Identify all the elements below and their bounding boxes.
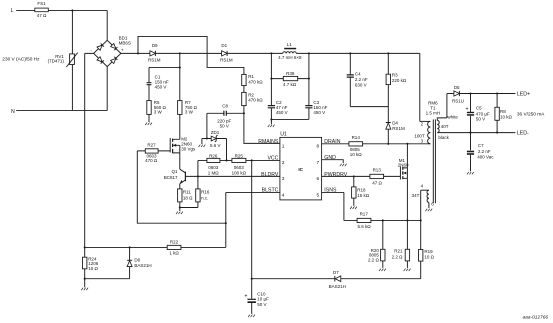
wire C8 left to ZD1 node [206, 113, 208, 139]
svg-text:R26: R26 [209, 154, 218, 159]
capacitor C8 [207, 103, 244, 128]
svg-text:3 W: 3 W [185, 110, 194, 115]
svg-text:aaa-012766: aaa-012766 [523, 314, 549, 320]
diode D9 RS1M [148, 43, 161, 63]
resistor R26 [207, 154, 220, 176]
svg-text:R17: R17 [360, 212, 369, 217]
svg-text:220 kΩ: 220 kΩ [392, 78, 407, 83]
wire R26 left vertical [197, 160, 199, 188]
wire C2 branch [270, 53, 272, 105]
node junction L/RV1 [71, 9, 73, 11]
label RMAINS [258, 139, 279, 145]
node VCC junction [251, 159, 253, 161]
svg-text:10 kΩ: 10 kΩ [350, 152, 363, 157]
transistor M2 2N60 [170, 136, 196, 153]
svg-text:4: 4 [282, 193, 285, 199]
diode D7 BAS21H [329, 270, 346, 289]
ground C7 [467, 172, 474, 175]
svg-text:R2: R2 [248, 92, 254, 97]
svg-text:15 kΩ: 15 kΩ [357, 193, 370, 198]
resistor R27 [137, 143, 170, 163]
resistor R17 [357, 212, 371, 229]
svg-text:5: 5 [317, 193, 320, 199]
svg-text:FS1: FS1 [37, 1, 46, 6]
svg-text:BLSTC: BLSTC [262, 187, 279, 193]
diode D4 RS1M [386, 107, 405, 144]
svg-text:2.2 Ω: 2.2 Ω [392, 254, 404, 259]
svg-text:MB6S: MB6S [119, 41, 131, 46]
capacitor C2 [268, 100, 288, 119]
svg-text:6: 6 [317, 176, 320, 182]
svg-text:36 V/250 mA: 36 V/250 mA [517, 112, 545, 118]
svg-text:470 kΩ: 470 kΩ [248, 98, 263, 103]
svg-text:10 kΩ: 10 kΩ [500, 114, 513, 119]
label output rating [517, 112, 545, 118]
svg-text:1 kΩ: 1 kΩ [169, 251, 179, 256]
transistor Q1 BC817 [164, 169, 186, 184]
wire R7 to M2 drain [173, 114, 180, 139]
svg-text:C4: C4 [355, 71, 361, 76]
svg-text:1: 1 [282, 144, 285, 150]
svg-text:RS1M: RS1M [392, 126, 405, 131]
svg-text:C10: C10 [257, 291, 266, 296]
wire N line [16, 67, 107, 111]
svg-text:50 V: 50 V [476, 117, 485, 122]
svg-text:0603: 0603 [208, 165, 219, 170]
wire main bus top [121, 53, 420, 121]
svg-text:R8: R8 [500, 109, 506, 114]
svg-text:L: L [11, 8, 14, 14]
capacitor C4 [347, 53, 368, 106]
svg-text:BC817: BC817 [164, 175, 178, 180]
node junction C2 top [270, 52, 272, 54]
svg-text:2: 2 [282, 160, 285, 166]
bridge rectifier BD1 MB6S [90, 36, 131, 67]
svg-text:R19: R19 [424, 249, 433, 254]
svg-text:2.2 Ω: 2.2 Ω [368, 257, 380, 262]
svg-text:BAS21H: BAS21H [329, 284, 346, 289]
svg-text:2.2 nF: 2.2 nF [355, 77, 368, 82]
wire bypass over D9 [138, 36, 244, 74]
svg-text:8: 8 [317, 144, 320, 150]
wire R1-R2 [243, 86, 245, 93]
fuse FS1 [35, 1, 49, 18]
svg-text:N: N [11, 109, 15, 115]
svg-text:R21: R21 [394, 249, 403, 254]
svg-text:R38: R38 [286, 71, 295, 76]
svg-text:R1: R1 [248, 74, 254, 79]
svg-text:white: white [447, 115, 458, 120]
svg-text:D6: D6 [134, 258, 140, 263]
resistor R14 [349, 135, 363, 157]
svg-text:400 Vac: 400 Vac [477, 154, 494, 159]
svg-text:R16: R16 [201, 190, 210, 195]
svg-text:C7: C7 [478, 143, 484, 148]
capacitor C1 [147, 75, 169, 101]
label 230V source [2, 56, 40, 62]
svg-text:7: 7 [317, 160, 320, 166]
svg-text:n.c.: n.c. [201, 195, 208, 200]
wire rail B [252, 278, 421, 280]
wire BLDRV line [185, 175, 280, 177]
svg-text:D1: D1 [221, 43, 227, 48]
svg-text:0603: 0603 [234, 165, 245, 170]
svg-text:1.5 mH: 1.5 mH [426, 110, 441, 115]
wire R11/R16 bottoms [179, 202, 198, 211]
wire clamp node [350, 106, 388, 108]
capacitor C5 [465, 94, 489, 133]
wire DRAIN line [322, 143, 431, 145]
node junction bypass left [137, 52, 139, 54]
svg-text:R13: R13 [373, 168, 382, 173]
svg-text:18 Ω: 18 Ω [183, 195, 193, 200]
wire LED+ line [459, 92, 515, 94]
wire VCC row [198, 159, 280, 161]
wire C1/R7 top node [149, 53, 181, 100]
svg-text:47 Ω: 47 Ω [37, 13, 47, 18]
svg-text:GND: GND [324, 155, 336, 161]
resistor R18 [352, 176, 370, 198]
wire M1 source to R21 [406, 178, 408, 249]
ground R20 [379, 261, 386, 271]
wire C3 branch [308, 53, 310, 105]
wire ISNS [322, 192, 358, 220]
label schematic id [523, 314, 549, 320]
capacitor C10 [244, 291, 269, 314]
svg-text:DRAIN: DRAIN [324, 139, 340, 145]
wire PWRDRV line [322, 175, 401, 177]
resistor R21 [392, 249, 410, 261]
svg-text:RS1U: RS1U [452, 98, 464, 103]
node L label [11, 8, 14, 14]
svg-text:630 V: 630 V [355, 83, 367, 88]
svg-text:C8: C8 [222, 103, 228, 108]
wire Q1 emitter to R11 [179, 184, 181, 189]
resistor R13 [370, 168, 384, 186]
svg-text:C5: C5 [476, 105, 482, 110]
svg-text:5.6 V: 5.6 V [210, 143, 221, 148]
svg-text:RS1M: RS1M [220, 58, 233, 63]
resistor R25 [232, 154, 247, 176]
svg-text:RS1M: RS1M [148, 58, 161, 63]
resistor R24 [83, 256, 99, 271]
svg-text:R18: R18 [357, 187, 366, 192]
node junction C3 top [308, 52, 310, 54]
svg-text:470 Ω: 470 Ω [145, 158, 158, 163]
svg-text:450 V: 450 V [276, 110, 288, 115]
label PWRDRV [324, 172, 348, 178]
label VCC [267, 155, 278, 161]
varistor RV1 [48, 53, 78, 67]
wire C2-C3 bottom [270, 118, 309, 124]
svg-text:Q1: Q1 [171, 169, 178, 174]
svg-text:10 Ω: 10 Ω [88, 266, 98, 271]
label BLDRV [261, 172, 279, 178]
svg-text:40T: 40T [441, 124, 449, 129]
wire ZD1 to gate node [225, 139, 227, 162]
wire R27 return to BLSTC rail [137, 151, 226, 223]
wire M1 drain [406, 144, 408, 168]
svg-text:47 Ω: 47 Ω [372, 181, 382, 186]
label ISNS [324, 187, 337, 193]
ground aux winding [428, 202, 430, 208]
svg-text:ISNS: ISNS [324, 187, 337, 193]
wire VCC to C10 [251, 160, 253, 298]
svg-text:470 kΩ: 470 kΩ [248, 79, 263, 84]
svg-text:D4: D4 [392, 120, 398, 125]
resistor R22 1k [167, 240, 181, 256]
resistor R3 [386, 53, 407, 106]
core bars [433, 119, 435, 203]
resistor R8 [495, 94, 513, 133]
svg-text:R14: R14 [352, 135, 361, 140]
svg-text:3 W: 3 W [154, 110, 163, 115]
svg-text:black: black [438, 135, 449, 140]
svg-text:10 Ω: 10 Ω [424, 255, 434, 260]
svg-text:PWRDRV: PWRDRV [324, 172, 348, 178]
resistor R19 [419, 190, 435, 279]
svg-text:2.2 nF: 2.2 nF [478, 149, 491, 154]
wire M2 source to Q1 [179, 153, 181, 169]
svg-text:100T: 100T [414, 133, 425, 138]
resistor R38 [271, 71, 310, 87]
winding primary 100T [428, 121, 431, 143]
node junction R7 top [179, 52, 181, 54]
resistor R5 [147, 100, 167, 115]
resistor R20 [368, 220, 385, 262]
IC U1 box [280, 131, 322, 200]
wire L line [16, 10, 107, 40]
label DRAIN [324, 139, 340, 145]
wire LED- line [437, 132, 515, 134]
winding aux 34T [421, 189, 429, 191]
svg-text:+: + [244, 293, 247, 299]
resistor R16 [196, 189, 210, 202]
svg-text:D7: D7 [333, 270, 339, 275]
label BLSTC [262, 187, 279, 193]
ground R11 [176, 212, 183, 215]
svg-text:U1: U1 [280, 131, 287, 137]
resistor R2 [242, 92, 264, 105]
diode D1 RS1M [220, 43, 233, 63]
wire RV1 branch [71, 10, 73, 110]
svg-text:L1: L1 [287, 42, 293, 47]
label GND + pin7 ground [322, 155, 347, 166]
svg-text:(7D471): (7D471) [48, 59, 65, 64]
wire R17 line right [371, 219, 422, 221]
svg-text:LED+: LED+ [517, 91, 530, 97]
transistor M1 2N60 [398, 158, 409, 180]
capacitor C3 [305, 100, 327, 119]
wire left rail (bridge minus) [85, 53, 94, 287]
svg-text:LED-: LED- [517, 131, 529, 137]
winding secondary 40T [437, 120, 439, 132]
ground C2 [268, 125, 275, 128]
inductor L1 [278, 42, 302, 60]
svg-text:50 V: 50 V [220, 123, 229, 128]
svg-text:BLDRV: BLDRV [261, 172, 279, 178]
svg-text:ZD1: ZD1 [211, 130, 220, 135]
ground R18 [350, 198, 357, 209]
svg-text:RMAINS: RMAINS [258, 139, 279, 145]
svg-text:R25: R25 [235, 154, 244, 159]
svg-text:BAS21H: BAS21H [134, 263, 151, 268]
transformer T1 RM6 [412, 94, 459, 212]
svg-text:D5: D5 [454, 85, 460, 90]
svg-text:4.7 mH 6×8: 4.7 mH 6×8 [278, 55, 302, 60]
ground R5 [145, 114, 152, 125]
wire primary top [420, 120, 431, 122]
ground ZD1 [199, 139, 206, 148]
diode D5 RS1U [447, 85, 464, 104]
svg-text:R11: R11 [183, 190, 191, 195]
svg-text:5.6 kΩ: 5.6 kΩ [357, 224, 371, 229]
svg-text:100 kΩ: 100 kΩ [232, 170, 247, 175]
label LED+ [517, 91, 530, 97]
svg-text:50 V: 50 V [257, 302, 266, 307]
svg-text:450 V: 450 V [313, 110, 325, 115]
svg-text:R27: R27 [147, 143, 156, 148]
node junction C4 top [349, 52, 351, 54]
wire R2 to RMAINS [243, 106, 280, 144]
ground R21 [404, 261, 411, 271]
svg-text:+: + [121, 48, 124, 53]
ground left rail [81, 288, 88, 291]
wire R22 line [84, 246, 226, 248]
resistor R11 [178, 189, 194, 202]
svg-text:R22: R22 [170, 240, 179, 245]
wire BLSTC [225, 192, 280, 247]
svg-text:+: + [465, 107, 468, 113]
label LED- [517, 131, 529, 137]
svg-text:R3: R3 [392, 72, 398, 77]
svg-text:D9: D9 [152, 43, 158, 48]
svg-text:30 Vgs: 30 Vgs [181, 146, 196, 151]
svg-text:4.7 kΩ: 4.7 kΩ [283, 82, 297, 87]
zener ZD1 5.6V [202, 130, 227, 148]
svg-text:3: 3 [282, 176, 285, 182]
svg-text:230 V (AC)/50 Hz: 230 V (AC)/50 Hz [2, 56, 40, 62]
resistor R7 [178, 100, 198, 115]
svg-text:IC: IC [298, 167, 303, 173]
wire rail A [84, 278, 130, 280]
ground C10 [248, 315, 255, 318]
svg-text:1 MΩ: 1 MΩ [208, 170, 220, 175]
svg-text:450 V: 450 V [155, 85, 167, 90]
resistor R1 [242, 74, 264, 86]
svg-text:34T: 34T [412, 193, 420, 198]
node junction R3 top [387, 52, 389, 54]
node N label [11, 109, 15, 115]
svg-text:VCC: VCC [267, 155, 278, 161]
capacitor C7 [467, 133, 494, 172]
diode D6 BAS21H [127, 247, 152, 278]
